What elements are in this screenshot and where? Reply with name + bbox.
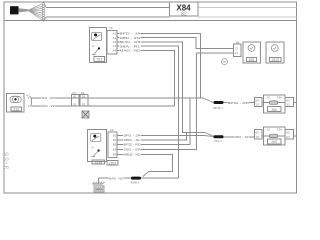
wire 3P2-JA xyxy=(117,135,204,137)
svg-text:20G - SA: 20G - SA xyxy=(124,148,141,152)
svg-text:d: d xyxy=(224,60,226,64)
fuse box 260 upper xyxy=(254,95,296,113)
svg-text:B2: B2 xyxy=(113,138,117,142)
svg-text:213: 213 xyxy=(13,107,19,111)
svg-text:3NC - VE: 3NC - VE xyxy=(42,104,55,108)
svg-text:1393: 1393 xyxy=(109,161,117,165)
svg-text:1O: 1O xyxy=(256,103,260,107)
display 1519 xyxy=(266,42,284,63)
splice marker R xyxy=(82,111,89,118)
svg-text:NO: NO xyxy=(286,98,290,102)
wire label 8FD-JA xyxy=(119,32,141,53)
relay 1338 connector strip CP xyxy=(108,132,117,158)
wire 38A-RL xyxy=(117,46,179,178)
wire 3NC-VE xyxy=(31,105,174,107)
wire 3N4-GR xyxy=(31,97,203,99)
svg-text:BP32 - RD: BP32 - RD xyxy=(228,101,249,105)
wire splice to ground bus xyxy=(143,172,149,177)
wire 8P32-RD xyxy=(117,98,190,145)
wires relay 1338 xyxy=(117,53,233,172)
wire BP32-RD xyxy=(224,102,255,104)
svg-text:NO: NO xyxy=(286,131,290,135)
fuse 260 lower label xyxy=(267,139,280,144)
svg-text:38W - SL: 38W - SL xyxy=(124,138,142,142)
svg-text:13: 13 xyxy=(235,47,239,51)
relay 753 xyxy=(90,28,107,63)
splice SP2-1 xyxy=(214,135,224,138)
wires relay 753 to right xyxy=(117,34,234,179)
svg-text:3N4 - GR: 3N4 - GR xyxy=(42,96,55,100)
inline connector CN/B4 xyxy=(72,95,89,107)
connector label 1393 xyxy=(107,161,118,165)
svg-text:B3: B3 xyxy=(113,148,117,152)
svg-text:MAS - NO: MAS - NO xyxy=(109,176,125,180)
fuse box 260 lower xyxy=(254,127,296,145)
svg-text:1B: 1B xyxy=(82,96,85,99)
svg-text:753: 753 xyxy=(96,58,102,62)
svg-text:260: 260 xyxy=(271,140,277,144)
svg-text:1519: 1519 xyxy=(272,58,280,62)
ground MAS xyxy=(93,178,103,184)
svg-text:7B: 7B xyxy=(82,103,85,106)
border frame xyxy=(4,2,297,193)
header band separator xyxy=(4,20,297,22)
svg-text:1338: 1338 xyxy=(94,161,102,165)
wire MAS-NO xyxy=(98,177,131,179)
svg-text:1B: 1B xyxy=(73,96,76,99)
svg-text:B4: B4 xyxy=(236,41,240,45)
svg-text:A: A xyxy=(92,146,94,150)
wire 8F3C-RS xyxy=(117,42,205,133)
circled letter node xyxy=(222,59,228,65)
splice EMB-1 xyxy=(131,177,141,180)
relay 1338 xyxy=(87,130,106,162)
svg-text:MAD - ND: MAD - ND xyxy=(120,49,141,53)
wire 38W-SL xyxy=(117,133,186,141)
connector B4 of 645 xyxy=(234,44,242,57)
header rail bottom line xyxy=(46,16,170,18)
svg-text:82: 82 xyxy=(181,11,187,17)
svg-text:2O: 2O xyxy=(286,135,290,139)
svg-text:8P32 - RD: 8P32 - RD xyxy=(124,143,141,147)
svg-text:NO: NO xyxy=(255,98,259,102)
svg-text:BP32-1: BP32-1 xyxy=(214,106,224,110)
svg-text:3-56: 3-56 xyxy=(3,151,10,169)
motor 213 label xyxy=(11,107,21,111)
svg-text:EMB-1: EMB-1 xyxy=(131,180,140,184)
svg-text:1O: 1O xyxy=(256,135,260,139)
svg-text:F8A: F8A xyxy=(277,95,282,99)
wire M8LB-ND xyxy=(117,155,173,172)
svg-text:CP: CP xyxy=(109,26,113,30)
wire 28D-2N xyxy=(117,38,234,49)
svg-text:MAS: MAS xyxy=(96,187,103,191)
svg-text:7B: 7B xyxy=(73,103,76,106)
wire 3P2-JA right xyxy=(224,136,255,138)
svg-text:F8A: F8A xyxy=(277,128,282,132)
relay 753 connector strip CP xyxy=(107,30,117,54)
wire MAD-ND xyxy=(117,50,175,106)
svg-text:B1: B1 xyxy=(113,134,117,138)
svg-text:2O: 2O xyxy=(286,103,290,107)
svg-text:M8LB - ND: M8LB - ND xyxy=(124,153,141,157)
splice BP32-1 xyxy=(214,101,224,104)
wire 20G-SA xyxy=(117,53,233,150)
svg-text:SP2-1: SP2-1 xyxy=(214,139,222,143)
relay 1338 label xyxy=(92,160,105,164)
header rail top line xyxy=(46,7,170,9)
svg-text:A4: A4 xyxy=(113,48,117,52)
svg-text:1O: 1O xyxy=(267,128,271,132)
svg-text:NO: NO xyxy=(255,131,259,135)
svg-text:B5: B5 xyxy=(113,143,117,147)
motor 213 xyxy=(7,94,25,113)
wire 8FD-JA xyxy=(117,34,201,99)
svg-text:260: 260 xyxy=(271,108,277,112)
fuse 260 upper label xyxy=(267,107,280,112)
svg-text:3P2 - JA: 3P2 - JA xyxy=(124,134,141,138)
title box X84 xyxy=(170,2,198,16)
svg-text:B4: B4 xyxy=(113,153,117,157)
svg-text:1O: 1O xyxy=(267,95,271,99)
svg-text:3P2 - JA: 3P2 - JA xyxy=(235,135,248,139)
harness icon top-left xyxy=(10,3,46,21)
svg-text:A: A xyxy=(92,44,94,48)
svg-text:CP: CP xyxy=(110,128,114,132)
svg-text:645: 645 xyxy=(249,58,255,62)
clock 645 xyxy=(243,42,261,63)
svg-text:14: 14 xyxy=(235,51,239,55)
relay 753 label xyxy=(94,57,104,62)
